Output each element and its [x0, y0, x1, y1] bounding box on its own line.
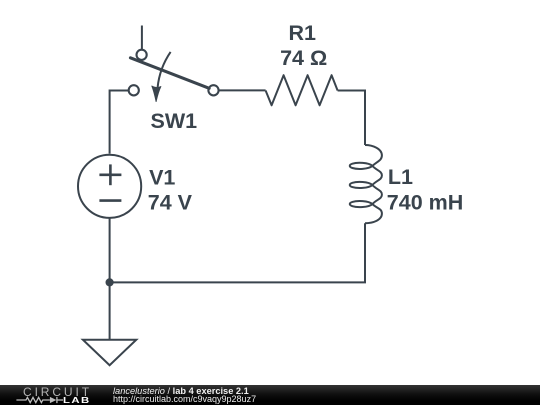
svg-text:740 mH: 740 mH — [387, 191, 464, 215]
ground — [83, 340, 136, 366]
junction node — [106, 278, 114, 286]
footer bar — [0, 385, 540, 405]
svg-text:V1: V1 — [149, 165, 175, 189]
switch SW1 — [129, 50, 219, 102]
svg-text:R1: R1 — [289, 21, 317, 45]
wire: switch to left rail — [110, 91, 129, 154]
svg-text:74 Ω: 74 Ω — [280, 46, 327, 70]
wire: resistor to inductor — [338, 91, 365, 146]
footer credit text — [113, 388, 249, 395]
svg-text:L1: L1 — [388, 165, 413, 189]
wire: switch to resistor — [218, 89, 265, 91]
inductor L1 — [350, 145, 382, 223]
wire: V1 bottom to ground — [109, 218, 111, 340]
wire: inductor to bottom rail — [110, 223, 365, 282]
resistor R1 — [266, 75, 338, 105]
svg-text:SW1: SW1 — [151, 109, 198, 133]
wire: switch top stub — [141, 26, 143, 51]
svg-text:74 V: 74 V — [148, 190, 193, 214]
voltage source V1 — [78, 155, 141, 218]
CircuitLab logo — [23, 387, 92, 397]
